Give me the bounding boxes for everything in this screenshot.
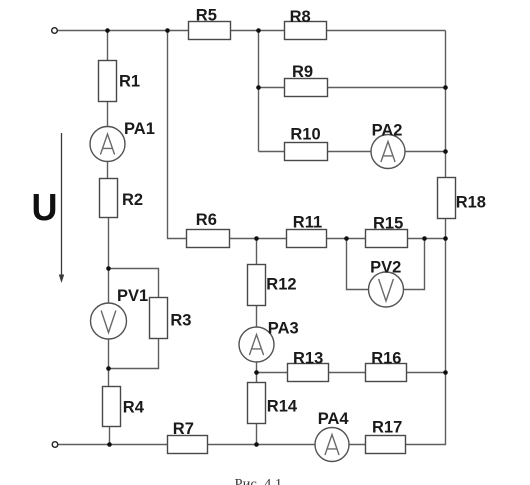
- svg-text:R14: R14: [267, 398, 298, 416]
- svg-text:PA4: PA4: [318, 410, 350, 428]
- svg-text:R12: R12: [266, 276, 296, 294]
- svg-text:PA1: PA1: [124, 120, 155, 138]
- svg-text:U: U: [32, 187, 58, 229]
- svg-text:R13: R13: [293, 350, 323, 368]
- svg-text:PA2: PA2: [372, 121, 403, 139]
- svg-text:R4: R4: [123, 399, 145, 417]
- svg-text:R17: R17: [372, 418, 402, 436]
- svg-text:PV1: PV1: [117, 287, 148, 305]
- svg-text:R9: R9: [292, 63, 313, 81]
- svg-text:PV2: PV2: [370, 259, 401, 277]
- svg-text:PA3: PA3: [268, 320, 299, 338]
- svg-text:R6: R6: [196, 211, 217, 229]
- svg-text:R2: R2: [122, 191, 143, 209]
- svg-text:R7: R7: [173, 420, 194, 438]
- svg-text:R8: R8: [290, 8, 311, 26]
- svg-text:Рис. 4.1: Рис. 4.1: [235, 477, 283, 485]
- svg-text:R18: R18: [456, 194, 486, 212]
- svg-text:R11: R11: [293, 214, 322, 232]
- svg-text:R10: R10: [290, 125, 320, 143]
- svg-text:R5: R5: [196, 6, 217, 24]
- svg-text:R3: R3: [170, 312, 191, 330]
- svg-text:R1: R1: [119, 73, 140, 91]
- svg-text:R15: R15: [373, 215, 403, 233]
- svg-text:R16: R16: [371, 350, 401, 368]
